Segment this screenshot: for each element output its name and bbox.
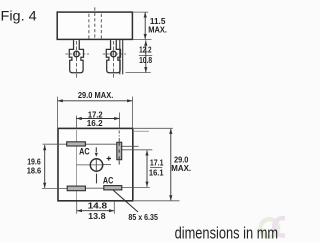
svg-text:16.1: 16.1 bbox=[149, 168, 164, 177]
svg-text:10.8: 10.8 bbox=[139, 56, 152, 65]
svg-text:17.1: 17.1 bbox=[150, 159, 164, 168]
svg-text:17.2: 17.2 bbox=[88, 110, 103, 119]
svg-text:MAX.: MAX. bbox=[148, 26, 167, 35]
svg-text:85 x 6.35: 85 x 6.35 bbox=[128, 213, 158, 222]
svg-text:13.8: 13.8 bbox=[88, 212, 106, 221]
svg-text:dimensions in mm: dimensions in mm bbox=[175, 223, 279, 242]
svg-text:29.0 MAX.: 29.0 MAX. bbox=[78, 91, 113, 100]
svg-text:14.8: 14.8 bbox=[88, 202, 108, 211]
svg-text:Fig. 4: Fig. 4 bbox=[1, 8, 37, 24]
svg-text:16.2: 16.2 bbox=[87, 119, 103, 128]
svg-text:AC: AC bbox=[103, 176, 114, 186]
svg-text:18.6: 18.6 bbox=[27, 166, 42, 175]
svg-text:12.2: 12.2 bbox=[139, 45, 152, 54]
svg-text:MAX.: MAX. bbox=[171, 164, 191, 173]
svg-text:AC: AC bbox=[79, 146, 90, 156]
